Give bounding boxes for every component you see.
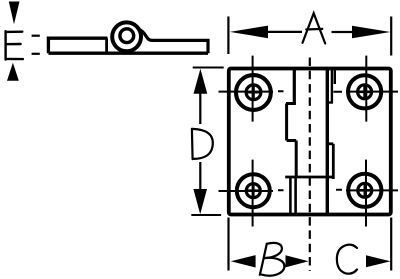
phillips cross top-left — [248, 87, 259, 98]
screw hole bottom-left outer — [237, 174, 270, 207]
screw hole top-left inner — [246, 85, 261, 100]
knuckle pin hole circle — [120, 29, 134, 43]
barrel left jog 1 — [286, 102, 296, 105]
extension dash top (leaf upper face) — [32, 35, 40, 37]
centerline vertical bottom-right hole — [365, 160, 367, 227]
centerline horizontal top-left hole — [219, 90, 284, 92]
dimension C right arrow — [366, 255, 391, 267]
dimension D down arrow — [193, 189, 207, 214]
screw hole bottom-left inner — [246, 184, 260, 198]
dimension B right arrow — [286, 255, 309, 267]
dimension A right arrow — [352, 26, 390, 39]
barrel left edge segment 4a — [289, 177, 292, 215]
dimension D label — [192, 129, 213, 159]
dimension C right extension line — [390, 218, 392, 271]
dimension C label — [337, 245, 357, 274]
side-view bottom edge — [48, 52, 208, 55]
centerline vertical top-left hole — [252, 56, 254, 122]
dimension D top extension line — [193, 67, 224, 69]
hinge pin line — [331, 69, 333, 103]
barrel dashed centerline — [309, 58, 311, 272]
centerline horizontal bottom-right hole — [336, 189, 398, 192]
centerline vertical bottom-left hole — [252, 160, 254, 227]
barrel right notch edge — [332, 144, 335, 179]
dimension E up-arrow — [7, 63, 19, 81]
barrel gap line at lower knuckle — [285, 176, 333, 179]
barrel right notch top cap — [327, 142, 333, 145]
dimension B label — [260, 243, 285, 276]
hinge pin outer line — [334, 69, 336, 84]
side-view left leaf (top edge + left end) — [48, 38, 107, 53]
dimension A label — [303, 13, 326, 43]
centerline horizontal bottom-left hole — [219, 189, 284, 192]
barrel right jog 1 — [327, 101, 333, 103]
dimension B left extension line — [227, 218, 229, 271]
dimension A left extension line — [227, 17, 229, 55]
screw hole bottom-right inner — [358, 183, 372, 197]
phillips cross bottom-right — [360, 185, 371, 196]
dimension E down-arrow — [9, 2, 20, 25]
side-view right leaf (right end + top edge + curl) — [140, 30, 209, 54]
dimension D line segments — [199, 93, 201, 191]
dimension A left arrow — [230, 26, 268, 39]
barrel right long edge — [326, 69, 329, 215]
knuckle outer barrel circle — [112, 22, 141, 51]
extension dash bottom (leaf lower face) — [32, 53, 40, 55]
dimension D bottom extension line — [191, 214, 221, 216]
centerline vertical top-right hole — [365, 56, 367, 122]
side-view leaf end divider — [105, 38, 108, 53]
screw hole bottom-right outer — [348, 174, 381, 207]
screw hole top-right outer — [348, 75, 381, 108]
dimension E label — [6, 31, 23, 59]
centerline horizontal top-right hole — [333, 91, 398, 93]
screw hole top-right inner — [358, 85, 372, 99]
phillips cross top-right — [359, 87, 370, 98]
dimension B left arrow — [231, 255, 256, 267]
barrel left edge segment 2 — [285, 104, 288, 141]
barrel left edge segment 1 — [293, 69, 296, 104]
phillips cross bottom-left — [248, 185, 259, 196]
barrel left edge segment 4b — [294, 177, 297, 215]
dimension A right extension line — [390, 17, 392, 56]
hinge body plate outline — [229, 69, 391, 215]
dimension D up arrow — [194, 69, 208, 94]
barrel left jog 2 — [287, 139, 297, 142]
screw hole top-left outer — [236, 75, 271, 110]
dimension A line segments — [267, 31, 353, 33]
barrel left edge segment 3 — [295, 141, 298, 178]
